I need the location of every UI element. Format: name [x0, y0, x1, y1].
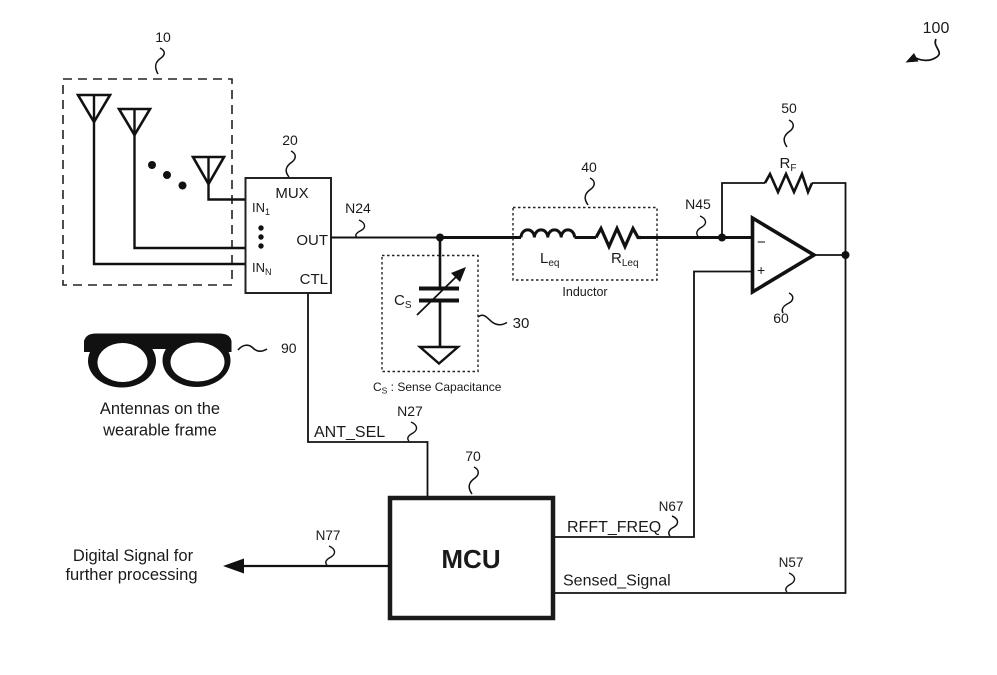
wire junction to inductor network — [440, 236, 521, 239]
antenna ANT2 — [119, 109, 150, 135]
wire output rail down to Sensed_Signal — [553, 255, 846, 593]
svg-text:ANT_SEL: ANT_SEL — [314, 424, 385, 441]
svg-text:MUX: MUX — [275, 185, 308, 202]
antenna array dashed box 10 — [63, 79, 232, 285]
multiplexer U20 MUX box — [246, 178, 332, 293]
svg-text:OUT: OUT — [296, 232, 328, 249]
svg-text:40: 40 — [581, 159, 597, 175]
glasses icon 90 — [84, 334, 232, 388]
sense capacitor dashed box 30 — [382, 256, 478, 372]
caption Cs sense capacitance — [373, 380, 502, 396]
svg-text:CTL: CTL — [300, 271, 328, 288]
wire ANT1 stem to MUX INn — [94, 122, 246, 264]
wire between Leq and RLeq — [575, 236, 596, 239]
svg-text:+: + — [757, 262, 765, 278]
wire inductor to op-amp minus input, node N45 — [641, 236, 752, 239]
junction node dot at N45 feedback tap — [718, 234, 726, 242]
svg-text:−: − — [757, 234, 766, 251]
svg-text:100: 100 — [923, 20, 950, 37]
wire N77 digital output arrow — [223, 559, 390, 574]
svg-text:20: 20 — [282, 132, 298, 148]
svg-text:N77: N77 — [316, 528, 341, 543]
wire ANT3 stem to MUX IN1 — [209, 184, 246, 200]
wire MUX CTL to MCU, ANT_SEL — [308, 293, 428, 497]
net label Sensed_Signal, node N57 — [563, 555, 803, 592]
antenna ANT1 — [78, 95, 110, 122]
svg-text:60: 60 — [773, 310, 789, 326]
ground symbol — [420, 347, 458, 364]
svg-text:MCU: MCU — [441, 544, 500, 574]
caption digital signal — [65, 547, 197, 584]
svg-text:N45: N45 — [685, 196, 711, 212]
svg-text:Antennas on the: Antennas on the — [100, 400, 220, 418]
wire MUX OUT to junction, node N24 — [331, 237, 440, 239]
caption Inductor — [562, 285, 607, 299]
feedback wire up and across — [722, 183, 765, 238]
wire feedback to output rail — [812, 183, 846, 255]
label 20 — [282, 132, 298, 177]
node N27 label — [397, 403, 423, 441]
op-amp U60 — [753, 218, 815, 292]
variable capacitor CS — [394, 267, 466, 315]
node N77 label — [316, 528, 341, 565]
label 40 — [581, 159, 597, 205]
svg-text:further processing: further processing — [65, 566, 197, 584]
svg-text:N57: N57 — [779, 555, 804, 570]
label 30 — [478, 315, 529, 332]
svg-text:RFFT_FREQ: RFFT_FREQ — [567, 519, 661, 536]
resistor RF — [765, 155, 812, 192]
svg-text:10: 10 — [155, 29, 171, 45]
svg-text:N67: N67 — [659, 499, 684, 514]
inductor dashed box 40 — [513, 208, 657, 281]
svg-text:90: 90 — [281, 340, 297, 356]
junction node dot at output — [842, 251, 850, 259]
svg-text:70: 70 — [465, 448, 481, 464]
resistor RLeq — [596, 229, 641, 270]
label 50 — [781, 100, 797, 147]
svg-text:50: 50 — [781, 100, 797, 116]
MUX internal ellipsis dots — [258, 225, 263, 248]
wire junction down to capacitor Cs — [439, 238, 442, 288]
caption antennas on the wearable frame — [100, 400, 220, 440]
MCU block 70 — [390, 498, 553, 618]
node N45 label — [685, 196, 711, 236]
svg-text:N27: N27 — [397, 403, 423, 419]
wire capacitor to ground — [439, 301, 442, 348]
antenna ANT3 — [193, 157, 224, 184]
svg-text:Digital Signal for: Digital Signal for — [73, 547, 194, 565]
inductor Leq coil — [521, 230, 575, 269]
node N24 label — [345, 200, 371, 238]
wire op-amp plus input from RFFT_FREQ rail — [553, 272, 753, 538]
svg-text:N24: N24 — [345, 200, 371, 216]
wire ANT2 stem to MUX middle input — [135, 135, 246, 248]
wire op-amp output — [814, 254, 846, 256]
junction node dot at N24/Cs tap — [436, 234, 444, 242]
label 90 — [238, 340, 297, 356]
net label RFFT_FREQ, node N67 — [567, 499, 683, 536]
svg-text:CS : Sense Capacitance: CS : Sense Capacitance — [373, 380, 502, 396]
svg-text:Inductor: Inductor — [562, 285, 607, 299]
svg-text:30: 30 — [513, 315, 530, 332]
label 70 — [465, 448, 481, 494]
label 10 — [155, 29, 171, 74]
ellipsis dots between antennas — [148, 161, 187, 190]
svg-text:wearable frame: wearable frame — [102, 422, 217, 440]
label 100 — [906, 20, 950, 63]
svg-text:Sensed_Signal: Sensed_Signal — [563, 573, 671, 590]
label 60 — [773, 293, 793, 326]
